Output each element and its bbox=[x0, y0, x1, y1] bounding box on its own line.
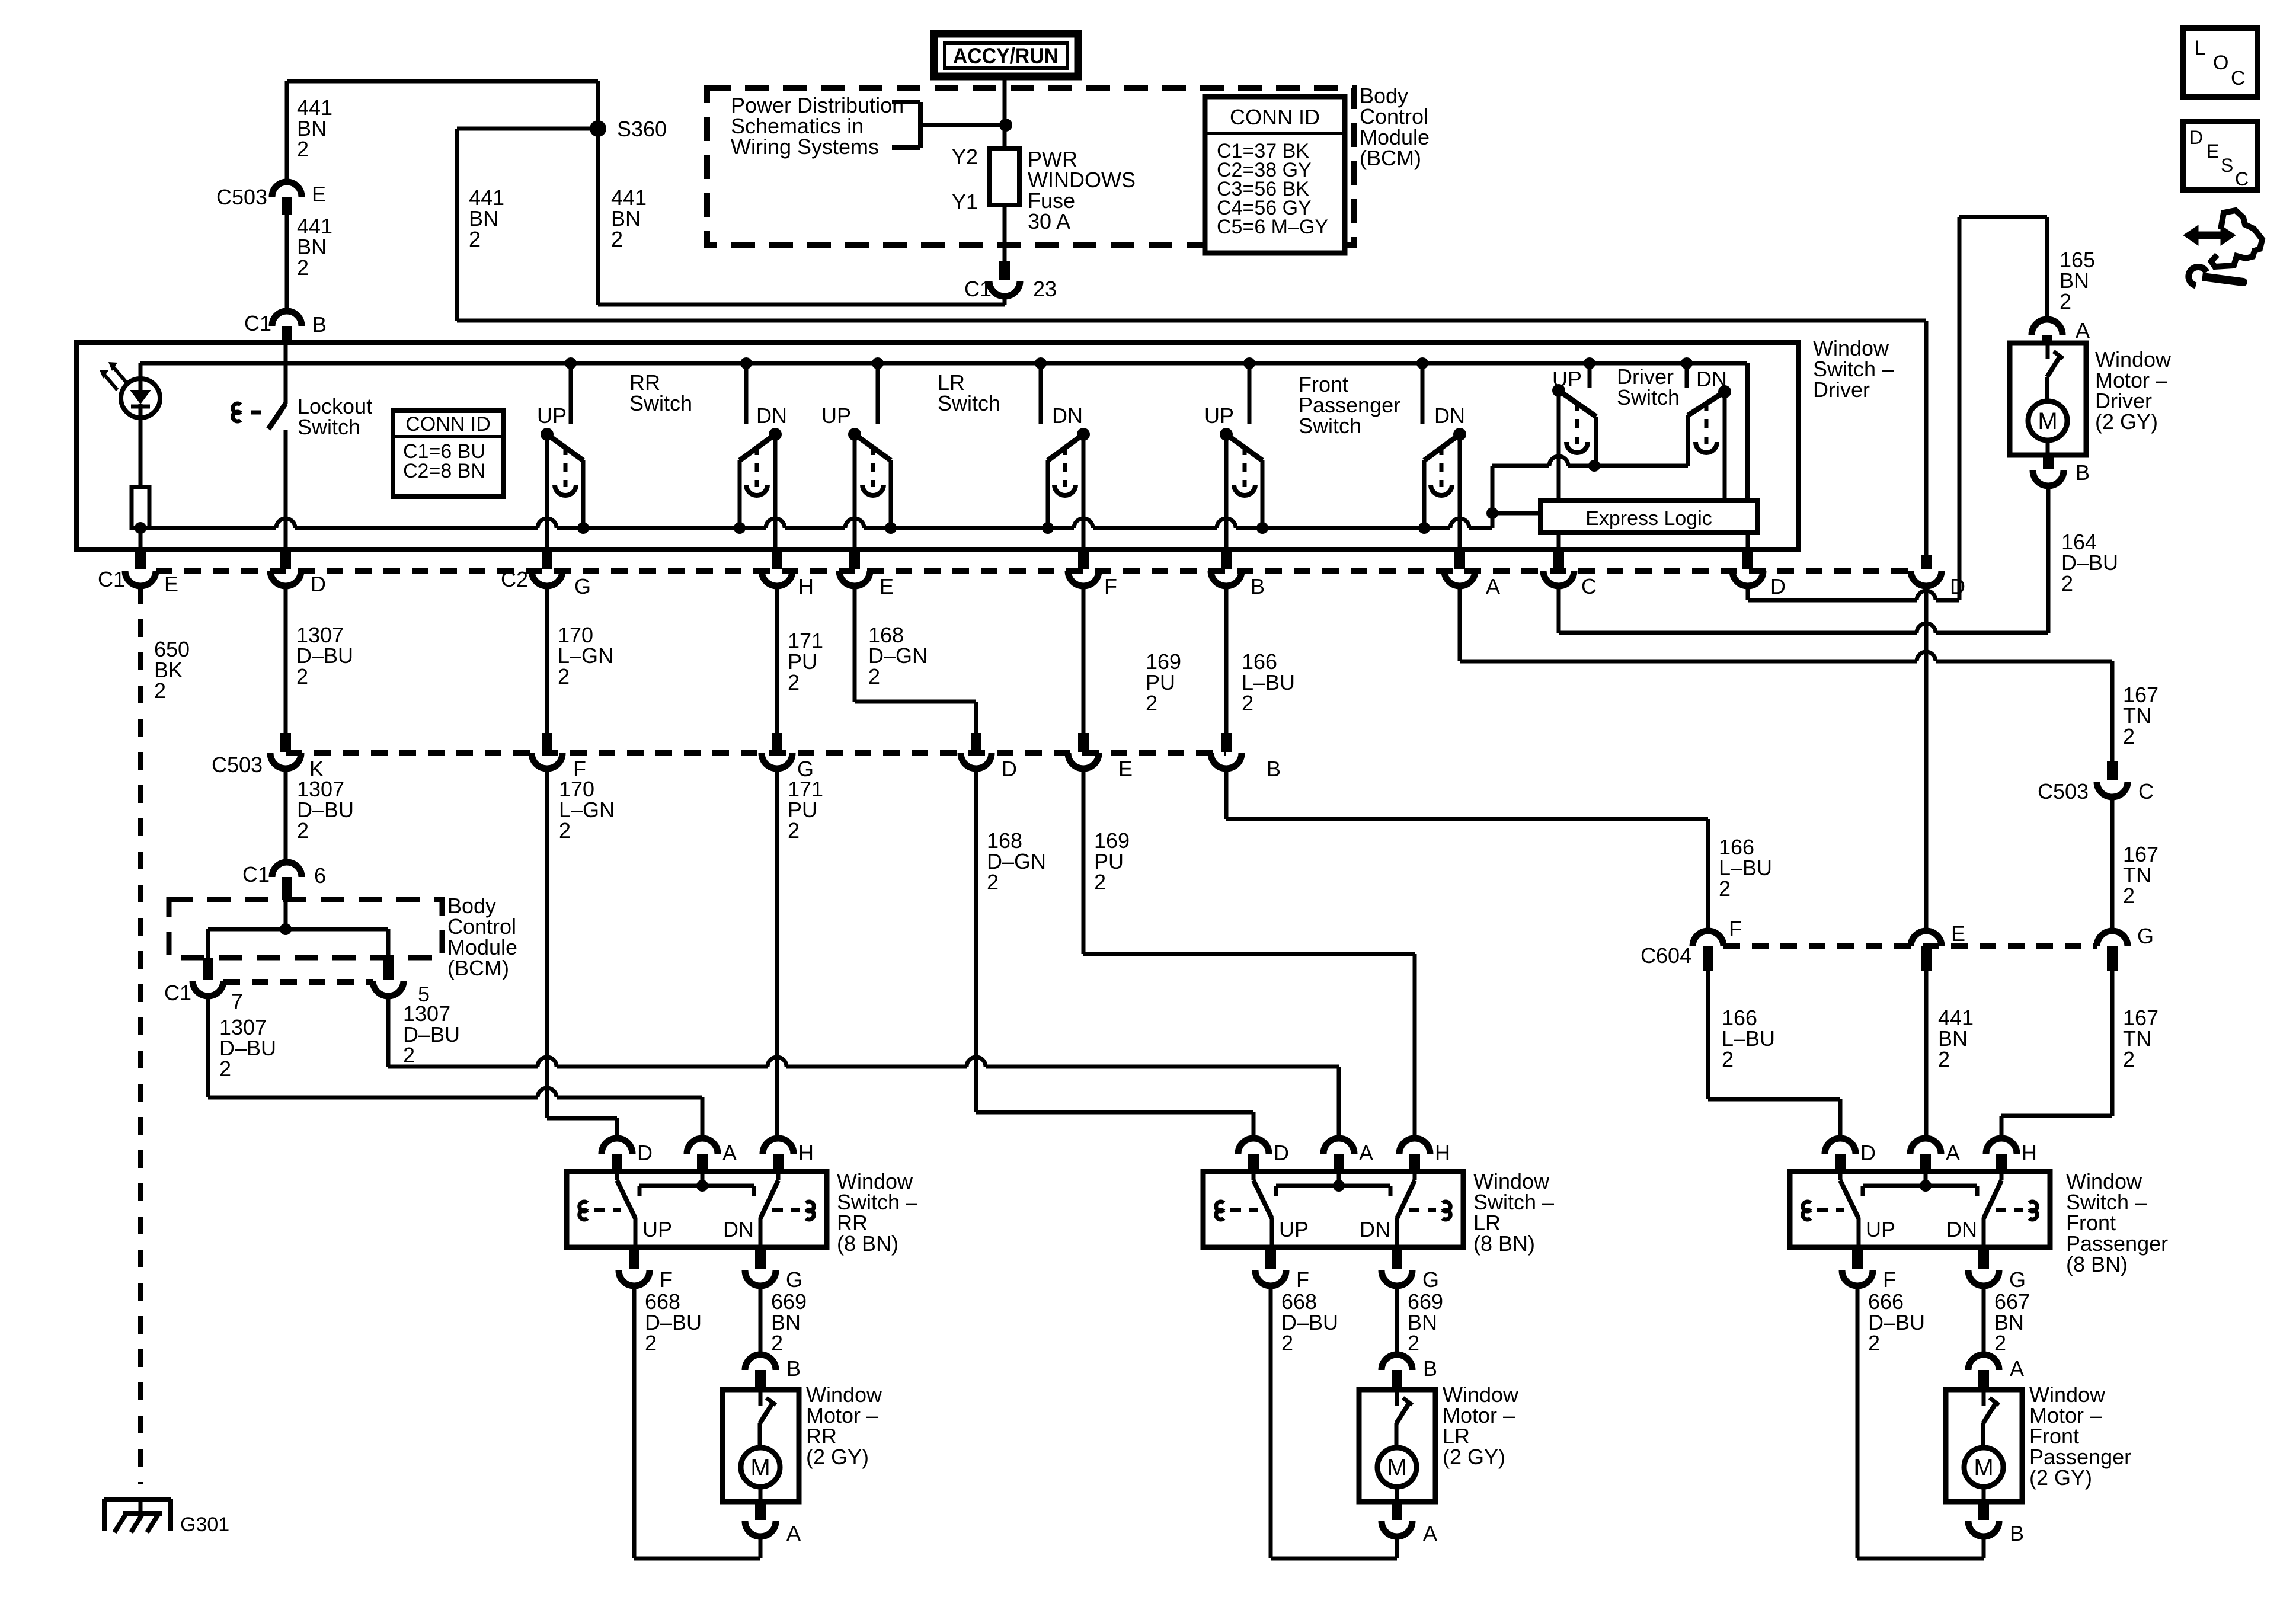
svg-text:UP: UP bbox=[1279, 1217, 1309, 1241]
svg-text:CONN ID: CONN ID bbox=[405, 413, 491, 436]
svg-text:(8 BN): (8 BN) bbox=[2066, 1252, 2128, 1276]
wire S360 right branch down bbox=[596, 129, 600, 305]
connector C503 pin B bbox=[1221, 733, 1232, 752]
motor M1 Window Motor - Driver bbox=[2010, 343, 2086, 455]
ground G301 bbox=[104, 1497, 171, 1502]
svg-text:M: M bbox=[1974, 1455, 1993, 1481]
connector C2 pin H bbox=[772, 549, 782, 569]
svg-text:B: B bbox=[1423, 1356, 1437, 1381]
svg-text:C1: C1 bbox=[964, 277, 992, 301]
svg-text:C2=8 BN: C2=8 BN bbox=[403, 460, 485, 482]
svg-text:2: 2 bbox=[788, 818, 800, 843]
wire LR motor A return bbox=[1271, 1557, 1397, 1561]
svg-text:2: 2 bbox=[868, 664, 880, 689]
wire RR F (668 D-BU) bbox=[632, 1286, 637, 1558]
svg-text:2: 2 bbox=[987, 870, 999, 894]
wire S360 left branch bbox=[457, 127, 598, 131]
wire 441 BN feed to D connector (long top run) bbox=[457, 319, 1926, 323]
wire 166 L-BU lower (C503-B to C604-F) bbox=[1224, 769, 1229, 819]
connector C1 pin 7 bbox=[203, 958, 213, 980]
svg-text:C503: C503 bbox=[216, 185, 267, 209]
wire C503-C to C604-G bbox=[2110, 797, 2115, 931]
svg-text:2: 2 bbox=[469, 227, 481, 251]
svg-text:Wiring Systems: Wiring Systems bbox=[731, 135, 879, 159]
connector C503 pin C bbox=[2107, 761, 2118, 780]
wire C604-G to FP switch H (167) bbox=[2110, 971, 2115, 1116]
svg-text:(2 GY): (2 GY) bbox=[2029, 1465, 2092, 1490]
fuse PWR WINDOWS 30A bbox=[990, 148, 1019, 205]
svg-text:H: H bbox=[1435, 1141, 1450, 1165]
node power junction above fuse bbox=[999, 119, 1012, 132]
svg-text:2: 2 bbox=[403, 1043, 415, 1067]
svg-text:DN: DN bbox=[1434, 404, 1465, 428]
lockout switch blade bbox=[268, 404, 286, 429]
wire FP motor B return bbox=[1857, 1557, 1984, 1561]
svg-text:DN: DN bbox=[756, 404, 787, 428]
svg-text:A: A bbox=[2076, 318, 2090, 343]
svg-text:C1: C1 bbox=[98, 567, 125, 591]
svg-text:S360: S360 bbox=[617, 117, 667, 141]
svg-text:23: 23 bbox=[1033, 277, 1057, 301]
wire lockout output down bbox=[284, 430, 288, 549]
svg-text:D: D bbox=[311, 572, 326, 596]
wire return rail up to express row bbox=[1491, 466, 1495, 528]
wire 170 L-GN upper bbox=[545, 586, 549, 733]
connector C1 pin E bbox=[135, 549, 146, 569]
icon box DESC bbox=[2183, 121, 2257, 190]
wire 168 D-GN lower (C503-D to LR D) bbox=[974, 769, 978, 1112]
svg-text:C: C bbox=[1581, 574, 1597, 598]
motor M4 Window Motor - Front Passenger bbox=[1968, 1355, 1999, 1370]
svg-text:B: B bbox=[786, 1356, 801, 1381]
connector C503 pin F bbox=[542, 733, 552, 752]
svg-text:A: A bbox=[1423, 1521, 1437, 1545]
svg-text:CONN ID: CONN ID bbox=[1230, 105, 1320, 129]
wire C503-K to BCM C1-6 bbox=[284, 769, 288, 862]
express logic box bbox=[1540, 501, 1758, 533]
connector C2 pin E bbox=[849, 549, 860, 569]
svg-text:A: A bbox=[722, 1141, 737, 1165]
connector C1 pin D bbox=[280, 549, 291, 569]
svg-text:E: E bbox=[1118, 757, 1133, 781]
svg-text:Switch: Switch bbox=[1299, 414, 1361, 438]
svg-text:2: 2 bbox=[558, 664, 570, 689]
dashed box Body Control Module (lower) bbox=[169, 900, 442, 958]
svg-text:L: L bbox=[2195, 37, 2206, 59]
resistor (LED dropping) bbox=[132, 487, 149, 528]
dashed box Body Control Module (top) bbox=[707, 88, 1354, 245]
wire driver sub-box right edge bbox=[1745, 363, 1750, 501]
svg-text:E: E bbox=[880, 574, 894, 598]
svg-text:2: 2 bbox=[1408, 1331, 1419, 1355]
switch Driver UP bbox=[1584, 357, 1595, 369]
top-left feed rectangle wires bbox=[287, 79, 598, 84]
connector C2 pin A bbox=[1454, 549, 1465, 569]
wire express output to C bbox=[1557, 533, 1561, 555]
svg-text:2: 2 bbox=[297, 137, 309, 161]
svg-text:F: F bbox=[660, 1267, 673, 1292]
wire feed run y514 (fuse to S360 branch) bbox=[598, 303, 1005, 307]
wire 168 D-GN upper (E to C503-D) bbox=[853, 586, 857, 702]
svg-text:B: B bbox=[1267, 757, 1281, 781]
svg-text:A: A bbox=[1486, 574, 1500, 598]
svg-text:S: S bbox=[2221, 155, 2233, 176]
svg-text:2: 2 bbox=[1094, 870, 1106, 894]
connector Window Motor Driver pin B bbox=[2043, 455, 2054, 469]
svg-text:(2 GY): (2 GY) bbox=[2095, 409, 2158, 434]
wire 650 BK to ground (dashed) bbox=[138, 586, 143, 1484]
svg-text:DN: DN bbox=[1052, 404, 1083, 428]
svg-text:F: F bbox=[1296, 1267, 1309, 1292]
svg-text:ACCY/RUN: ACCY/RUN bbox=[953, 44, 1059, 68]
svg-text:Driver: Driver bbox=[1813, 377, 1870, 402]
svg-text:Switch: Switch bbox=[629, 391, 692, 415]
bracket for power distribution note bbox=[892, 100, 920, 104]
svg-text:2: 2 bbox=[1146, 691, 1157, 715]
svg-text:H: H bbox=[798, 574, 814, 598]
svg-text:A: A bbox=[786, 1521, 801, 1545]
svg-text:B: B bbox=[312, 312, 327, 337]
icon box LOC bbox=[2183, 28, 2257, 97]
svg-text:2: 2 bbox=[1242, 691, 1253, 715]
icon wrench bbox=[2189, 267, 2207, 286]
motor M3 Window Motor - LR bbox=[1382, 1355, 1412, 1370]
connector C604 pin F bbox=[1693, 931, 1723, 946]
connector C1 pin 6 bbox=[272, 862, 302, 877]
BCM internal wires bbox=[284, 900, 288, 929]
switch Front Passenger UP bbox=[1243, 357, 1255, 369]
svg-text:D: D bbox=[1274, 1141, 1289, 1165]
svg-text:2: 2 bbox=[2123, 1047, 2135, 1071]
connector C503 pin G bbox=[772, 733, 782, 752]
wire 170 L-GN lower (C503-F to RR D) bbox=[545, 769, 549, 1118]
LED pilot lamp bbox=[121, 379, 160, 418]
svg-text:O: O bbox=[2213, 52, 2228, 74]
svg-text:2: 2 bbox=[788, 670, 800, 694]
dashed connector line C503 row bbox=[286, 750, 1226, 756]
svg-text:A: A bbox=[2010, 1356, 2024, 1381]
svg-text:2: 2 bbox=[2061, 571, 2073, 596]
dashed connector line C1/C2 row bbox=[156, 568, 1911, 574]
wire C604-E to FP switch A (441) bbox=[1924, 971, 1929, 1138]
svg-text:30 A: 30 A bbox=[1028, 209, 1070, 233]
switch Front Passenger DN bbox=[1416, 357, 1428, 369]
svg-text:Y1: Y1 bbox=[952, 190, 978, 214]
wire FP G (667 BN) bbox=[1982, 1286, 1986, 1356]
svg-text:G: G bbox=[2137, 924, 2154, 948]
connector C503 pin E bbox=[1078, 733, 1089, 752]
svg-text:C2: C2 bbox=[501, 567, 528, 591]
connector C503 pin D bbox=[971, 733, 981, 752]
svg-text:C503: C503 bbox=[212, 753, 263, 777]
LED emission arrows bbox=[113, 366, 126, 382]
svg-text:2: 2 bbox=[2123, 724, 2135, 748]
svg-text:2: 2 bbox=[645, 1331, 657, 1355]
svg-text:C1: C1 bbox=[164, 981, 191, 1005]
svg-text:D: D bbox=[1002, 757, 1017, 781]
wire 171 PU lower (C503-G to RR H) bbox=[775, 769, 779, 1138]
svg-text:2: 2 bbox=[1868, 1331, 1880, 1355]
svg-text:C1: C1 bbox=[244, 311, 271, 335]
svg-text:F: F bbox=[1883, 1267, 1896, 1292]
wire C503-E to C1-B bbox=[285, 215, 289, 311]
svg-text:G: G bbox=[1422, 1267, 1439, 1292]
switch RR DN bbox=[740, 357, 752, 369]
wire BCM C1-5 to LR switch A bbox=[386, 996, 391, 1067]
svg-text:G: G bbox=[786, 1267, 802, 1292]
connector C2 pin F bbox=[1078, 549, 1089, 569]
svg-text:6: 6 bbox=[314, 863, 326, 888]
svg-text:G: G bbox=[2009, 1267, 2026, 1292]
svg-text:C: C bbox=[2235, 168, 2249, 190]
svg-text:G: G bbox=[574, 574, 591, 598]
connector C1 pin 5 bbox=[383, 958, 394, 980]
svg-text:A: A bbox=[1946, 1141, 1960, 1165]
svg-text:2: 2 bbox=[1281, 1331, 1293, 1355]
wire RR motor A return bbox=[634, 1557, 760, 1561]
svg-text:UP: UP bbox=[1552, 367, 1582, 391]
svg-text:DN: DN bbox=[1360, 1217, 1390, 1241]
svg-text:7: 7 bbox=[231, 989, 243, 1013]
wire A to C503-C (167 TN) bbox=[1458, 586, 1462, 661]
svg-text:A: A bbox=[1359, 1141, 1373, 1165]
svg-text:Y2: Y2 bbox=[952, 145, 978, 169]
svg-text:C: C bbox=[2231, 67, 2246, 89]
connector C2 pin D (express) bbox=[1742, 549, 1753, 569]
svg-text:C: C bbox=[2138, 779, 2154, 804]
svg-text:E: E bbox=[164, 572, 178, 596]
svg-text:(2 GY): (2 GY) bbox=[1443, 1445, 1505, 1469]
svg-text:C604: C604 bbox=[1641, 943, 1691, 968]
svg-text:2: 2 bbox=[1719, 876, 1731, 901]
svg-text:D: D bbox=[1770, 574, 1786, 598]
connector C2 pin C bbox=[1553, 549, 1564, 569]
connector C604 pin G bbox=[2097, 931, 2128, 946]
svg-text:Switch: Switch bbox=[938, 391, 1000, 415]
bus internal top (power rail) bbox=[140, 361, 1747, 366]
svg-text:M: M bbox=[2038, 408, 2057, 434]
svg-text:F: F bbox=[1104, 574, 1117, 598]
connector C604 pin E bbox=[1911, 931, 1942, 946]
svg-text:D: D bbox=[1860, 1141, 1876, 1165]
svg-text:Switch: Switch bbox=[1617, 385, 1680, 409]
svg-text:2: 2 bbox=[1938, 1047, 1950, 1071]
svg-text:DN: DN bbox=[723, 1217, 754, 1241]
svg-text:2: 2 bbox=[2123, 884, 2135, 908]
svg-text:2: 2 bbox=[771, 1331, 783, 1355]
svg-text:UP: UP bbox=[1866, 1217, 1895, 1241]
wire 169 PU upper bbox=[1082, 586, 1086, 733]
svg-text:E: E bbox=[1951, 921, 1965, 946]
connector C2 pin B bbox=[1221, 549, 1232, 569]
wire 171 PU upper bbox=[775, 586, 779, 733]
wire C604-F to FP switch D (166) bbox=[1706, 971, 1710, 1099]
wire 169 PU lower (C503-E to LR H) bbox=[1082, 769, 1086, 954]
node driver-up output junction bbox=[1588, 460, 1600, 472]
node express feed junction bbox=[1486, 507, 1498, 519]
connector C2 pin D (feed) bbox=[1924, 321, 1929, 555]
svg-text:2: 2 bbox=[154, 678, 166, 703]
svg-text:B: B bbox=[2076, 460, 2090, 485]
wire LED column to C1-E bbox=[139, 528, 143, 549]
wire express output to D bbox=[1746, 533, 1750, 555]
wire C1-23 down to feed run bbox=[1003, 296, 1007, 305]
svg-text:E: E bbox=[312, 182, 326, 206]
svg-text:(8 BN): (8 BN) bbox=[1473, 1231, 1535, 1256]
wire BCM C1-7 to RR switch A bbox=[206, 996, 210, 1097]
motor M2 Window Motor - RR bbox=[745, 1355, 776, 1370]
CONN ID table (BCM top) bbox=[1205, 97, 1345, 253]
svg-text:Switch: Switch bbox=[298, 415, 360, 439]
svg-text:2: 2 bbox=[296, 664, 308, 689]
svg-text:D: D bbox=[2189, 127, 2203, 148]
lockout switch wire from C1-B bbox=[284, 344, 288, 404]
svg-text:M: M bbox=[1387, 1455, 1406, 1481]
component box Window Switch - Driver bbox=[76, 343, 1799, 549]
svg-text:UP: UP bbox=[821, 404, 851, 428]
svg-text:UP: UP bbox=[642, 1217, 672, 1241]
connector C1 pin 23 bbox=[999, 261, 1010, 280]
wire fuse to connector C1-23 bbox=[1003, 205, 1007, 261]
switch LR DN bbox=[1035, 357, 1047, 369]
splice S360 bbox=[590, 120, 606, 137]
svg-text:(BCM): (BCM) bbox=[1360, 146, 1421, 170]
svg-text:2: 2 bbox=[219, 1057, 231, 1081]
svg-text:H: H bbox=[2022, 1141, 2037, 1165]
svg-text:2: 2 bbox=[611, 227, 623, 251]
svg-text:C1: C1 bbox=[242, 862, 270, 886]
component box Window Switch - LR bbox=[1238, 1138, 1269, 1154]
svg-text:G301: G301 bbox=[180, 1513, 229, 1536]
dashed line C1 lower row bbox=[223, 979, 373, 985]
svg-text:2: 2 bbox=[559, 818, 571, 843]
svg-text:2: 2 bbox=[1994, 1331, 2006, 1355]
switch RR UP bbox=[565, 357, 577, 369]
wire RR G (669 BN) bbox=[759, 1286, 763, 1356]
svg-text:B: B bbox=[2010, 1521, 2024, 1545]
svg-text:B: B bbox=[1251, 574, 1265, 598]
svg-text:H: H bbox=[798, 1141, 814, 1165]
svg-text:2: 2 bbox=[2060, 289, 2071, 313]
switch Driver DN bbox=[1681, 357, 1693, 369]
lockout switch contact bbox=[233, 404, 241, 413]
svg-text:DN: DN bbox=[1696, 367, 1727, 391]
svg-text:2: 2 bbox=[297, 818, 309, 843]
switch LR UP bbox=[872, 357, 884, 369]
svg-text:Express Logic: Express Logic bbox=[1585, 507, 1712, 530]
wire lockout D to C503-K bbox=[284, 586, 288, 733]
svg-text:DN: DN bbox=[1946, 1217, 1977, 1241]
wire 166 L-BU upper bbox=[1224, 586, 1229, 733]
svg-text:E: E bbox=[2207, 140, 2219, 162]
component box Window Switch - Front Passenger bbox=[1825, 1138, 1856, 1154]
svg-text:2: 2 bbox=[1722, 1047, 1734, 1071]
connector C2 pin G bbox=[542, 549, 552, 569]
icon vehicle with arrows bbox=[2211, 210, 2262, 267]
svg-text:UP: UP bbox=[537, 404, 567, 428]
svg-text:C5=6 M–GY: C5=6 M–GY bbox=[1217, 216, 1328, 238]
connector C503 pin K bbox=[280, 733, 291, 752]
wire D to motor loop bbox=[1746, 586, 1750, 600]
component box Window Switch - RR bbox=[602, 1138, 632, 1154]
connector Window Motor Driver pin A bbox=[2032, 319, 2062, 335]
wire LR F (668 D-BU) bbox=[1269, 1286, 1273, 1558]
svg-text:C503: C503 bbox=[2038, 779, 2089, 804]
svg-text:2: 2 bbox=[297, 255, 309, 280]
power feed box ACCY/RUN bbox=[934, 34, 1078, 76]
CONN ID table (driver switch) bbox=[393, 411, 503, 497]
wire ACCY/RUN to fuse bbox=[1003, 76, 1007, 148]
wire FP F (666 D-BU) bbox=[1856, 1286, 1860, 1558]
connector C503 pin E bbox=[272, 182, 302, 197]
svg-text:M: M bbox=[750, 1455, 770, 1481]
svg-text:(8 BN): (8 BN) bbox=[837, 1231, 898, 1256]
connector C1 pin B bbox=[272, 311, 302, 326]
wire LR G (669 BN) bbox=[1395, 1286, 1399, 1356]
svg-text:UP: UP bbox=[1204, 404, 1234, 428]
dashed connector line C604 row bbox=[1723, 943, 2097, 949]
svg-text:(BCM): (BCM) bbox=[447, 956, 509, 980]
svg-text:(2 GY): (2 GY) bbox=[806, 1445, 869, 1469]
svg-text:D: D bbox=[637, 1141, 653, 1165]
wire express row horizontal bbox=[1492, 464, 1549, 468]
svg-text:F: F bbox=[1729, 917, 1742, 941]
bus internal bottom (return rail) bbox=[140, 526, 276, 530]
wire C to driver motor B (164 D-BU) bbox=[1557, 586, 1561, 633]
